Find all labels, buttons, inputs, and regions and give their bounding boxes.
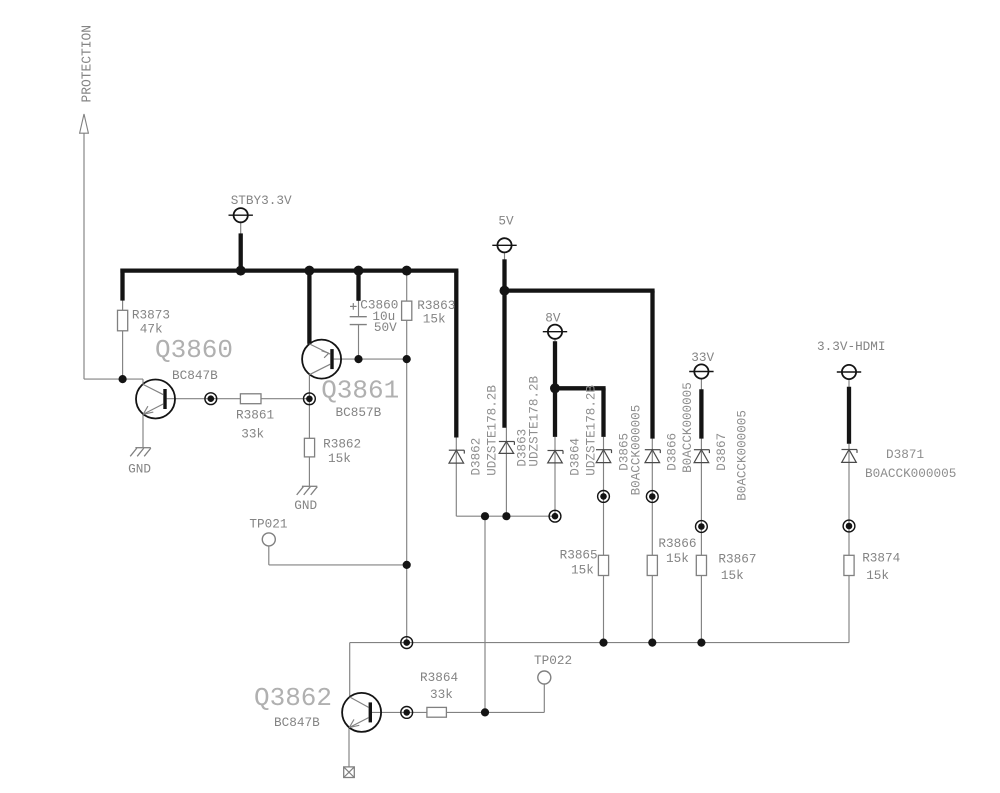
svg-text:R3866: R3866 bbox=[658, 536, 696, 551]
svg-text:R3861: R3861 bbox=[236, 408, 274, 423]
svg-text:15k: 15k bbox=[328, 451, 351, 466]
svg-text:15k: 15k bbox=[666, 551, 689, 566]
svg-text:B0ACCK000005: B0ACCK000005 bbox=[630, 405, 644, 496]
svg-text:TP021: TP021 bbox=[249, 517, 287, 532]
svg-text:D3867: D3867 bbox=[715, 433, 729, 471]
svg-text:R3864: R3864 bbox=[420, 670, 458, 685]
svg-text:R3862: R3862 bbox=[323, 437, 361, 452]
svg-text:BC847B: BC847B bbox=[274, 715, 320, 730]
svg-text:PROTECTION: PROTECTION bbox=[81, 25, 96, 103]
svg-text:D3864: D3864 bbox=[569, 438, 583, 476]
svg-text:15k: 15k bbox=[866, 568, 889, 583]
svg-text:15k: 15k bbox=[571, 563, 594, 578]
svg-text:Q3862: Q3862 bbox=[254, 683, 332, 713]
svg-text:8V: 8V bbox=[545, 310, 561, 325]
svg-text:Q3860: Q3860 bbox=[155, 335, 233, 365]
svg-text:GND: GND bbox=[294, 498, 317, 513]
svg-text:B0ACCK000005: B0ACCK000005 bbox=[865, 466, 956, 481]
svg-text:3.3V-HDMI: 3.3V-HDMI bbox=[817, 339, 886, 354]
svg-text:D3862: D3862 bbox=[469, 438, 483, 476]
svg-text:33V: 33V bbox=[691, 350, 714, 365]
svg-text:R3865: R3865 bbox=[560, 547, 598, 562]
svg-text:15k: 15k bbox=[423, 312, 446, 327]
svg-text:33k: 33k bbox=[241, 426, 264, 441]
svg-text:R3873: R3873 bbox=[132, 308, 170, 323]
svg-text:5V: 5V bbox=[498, 214, 514, 229]
svg-text:TP022: TP022 bbox=[534, 653, 572, 668]
svg-text:15k: 15k bbox=[721, 568, 744, 583]
svg-text:STBY3.3V: STBY3.3V bbox=[231, 193, 292, 208]
svg-text:50V: 50V bbox=[374, 320, 397, 335]
svg-text:R3867: R3867 bbox=[718, 551, 756, 566]
svg-text:Q3861: Q3861 bbox=[321, 375, 399, 405]
svg-text:BC847B: BC847B bbox=[172, 368, 218, 383]
svg-text:D3866: D3866 bbox=[666, 433, 680, 471]
svg-text:BC857B: BC857B bbox=[336, 405, 382, 420]
svg-text:B0ACCK000005: B0ACCK000005 bbox=[736, 410, 750, 501]
svg-text:D3871: D3871 bbox=[886, 447, 924, 462]
svg-text:UDZSTE178.2B: UDZSTE178.2B bbox=[528, 375, 542, 466]
svg-text:UDZSTE178.2B: UDZSTE178.2B bbox=[485, 385, 499, 476]
svg-text:B0ACCK000005: B0ACCK000005 bbox=[681, 382, 695, 473]
svg-text:GND: GND bbox=[128, 462, 151, 477]
svg-text:33k: 33k bbox=[430, 687, 453, 702]
svg-text:UDZSTE178.2B: UDZSTE178.2B bbox=[584, 385, 598, 476]
svg-text:R3874: R3874 bbox=[862, 550, 900, 565]
